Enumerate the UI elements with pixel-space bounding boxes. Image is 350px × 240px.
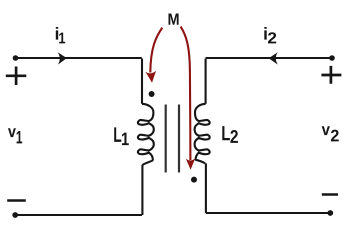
mutual coupling arrow right [181, 27, 196, 170]
wire top-right [206, 57, 332, 59]
wire bottom-right [206, 212, 330, 214]
terminal dot right top [329, 55, 335, 61]
mutual coupling arrow left [146, 28, 163, 83]
label i1 [56, 27, 65, 43]
inductor L1 [138, 59, 154, 216]
label L2 [222, 126, 238, 143]
label i2 [264, 27, 276, 43]
label v1 [8, 128, 22, 143]
terminal dot left bottom [12, 212, 18, 218]
terminal dot left top [13, 55, 19, 61]
wire top-left [16, 57, 142, 59]
plus sign right [321, 66, 341, 84]
label v2 [322, 126, 339, 141]
terminal dot right bottom [327, 210, 333, 216]
plus sign left [6, 67, 27, 86]
wire bottom-left [15, 214, 142, 216]
transformer core [166, 105, 179, 173]
label L1 [114, 127, 129, 145]
inductor L2 [195, 59, 210, 214]
mutual inductance label M [168, 13, 178, 24]
polarity dot right [191, 177, 197, 183]
minus sign left [7, 199, 26, 202]
current arrow i2 [269, 52, 278, 64]
minus sign right [322, 193, 338, 196]
current arrow i1 [58, 52, 67, 64]
polarity dot left [149, 91, 155, 97]
